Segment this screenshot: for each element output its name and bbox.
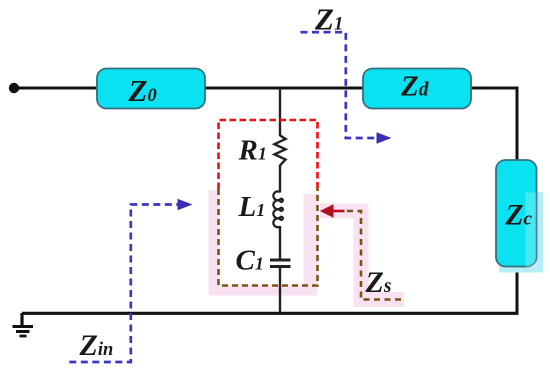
wire below C1 (279, 267, 281, 314)
Zs dashed path (347, 211, 402, 300)
node input dot (9, 83, 19, 93)
wire right vertical (516, 87, 519, 314)
wire between R1 and L1 (279, 165, 281, 193)
Z1 dashed pointer path (301, 32, 378, 138)
Zs red arrowhead (320, 204, 334, 217)
pink highlight of Zs measurement loop (214, 190, 404, 300)
capacitor C1 (270, 259, 291, 262)
resistor R1 (274, 135, 285, 165)
top wire (14, 87, 517, 90)
impedance box Zc (496, 160, 537, 267)
resonator dashed box olive part (219, 188, 318, 286)
resonator dashed box red part (219, 120, 318, 189)
bottom wire (22, 312, 519, 315)
Zin arrowhead (178, 199, 193, 211)
inductor L1 (273, 191, 282, 227)
impedance box Zd (363, 69, 471, 109)
Zc shadow highlight (499, 192, 543, 273)
Zin dashed pointer path (69, 205, 178, 363)
ground (13, 313, 34, 336)
Z1 arrowhead (377, 132, 392, 144)
Zc highlight overlay (526, 193, 537, 268)
impedance box Z0 (97, 69, 205, 109)
wire middle branch top (279, 88, 281, 136)
wire between L1 and C1 (279, 226, 281, 259)
